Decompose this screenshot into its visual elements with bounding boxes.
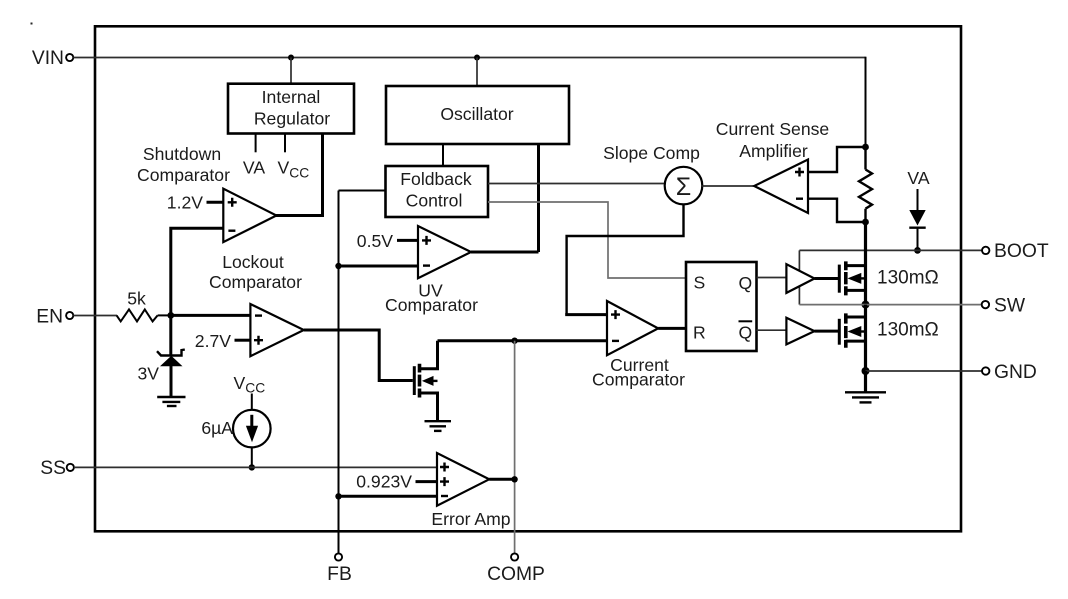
- ground power stage: [845, 371, 886, 402]
- wire FB node to Foldback Control: [339, 190, 386, 192]
- node diode/BOOT junction: [914, 247, 921, 254]
- flip-flop SR latch: [686, 262, 757, 351]
- svg-text:Q: Q: [739, 273, 753, 293]
- node COMP/error-amp-output junction: [511, 476, 517, 482]
- wire VA stub: [255, 134, 257, 153]
- wire 0.5V to + input: [397, 239, 418, 242]
- wire bottom FET to ground node: [864, 305, 867, 371]
- svg-text:Lockout: Lockout: [222, 252, 284, 272]
- svg-text:Oscillator: Oscillator: [440, 104, 513, 124]
- wire EN node to lockout - input: [171, 314, 251, 317]
- summer Slope Comp: [603, 143, 702, 204]
- wire error amp output: [489, 478, 514, 481]
- buffer top gate driver: [786, 264, 814, 293]
- svg-text:0.5V: 0.5V: [357, 231, 393, 251]
- node GND junction: [862, 367, 870, 375]
- wire VIN rail: [95, 57, 866, 59]
- svg-text:5k: 5k: [127, 289, 146, 309]
- wire 0.923V to + input: [416, 480, 438, 483]
- ground zener: [157, 397, 185, 406]
- op-amp Current Comparator: [592, 301, 685, 390]
- wire current comparator output to latch R: [658, 327, 686, 330]
- op-amp Lockout Comparator: [209, 252, 304, 356]
- wire FB node to error amp - input: [339, 495, 438, 498]
- svg-text:6µA: 6µA: [201, 418, 233, 438]
- wire 1.2V to + input: [207, 201, 224, 204]
- block Foldback Control: [386, 166, 489, 217]
- wire Foldback Control to slope comp: [488, 183, 666, 185]
- svg-text:S: S: [694, 273, 706, 293]
- svg-text:130mΩ: 130mΩ: [877, 320, 939, 341]
- wire 5k to EN node: [158, 314, 171, 316]
- svg-text:Current Sense: Current Sense: [716, 119, 829, 139]
- wire VCC stub: [284, 134, 286, 153]
- wire BOOT rail: [799, 249, 961, 251]
- transistor Q pulldown (lockout): [414, 341, 437, 421]
- svg-text:EN: EN: [36, 307, 63, 328]
- op-amp Shutdown Comparator: [137, 144, 276, 242]
- op-amp Error Amp: [431, 453, 510, 529]
- node SS/current-source junction: [249, 464, 255, 470]
- svg-text:GND: GND: [994, 362, 1037, 383]
- current source 6uA: [201, 373, 270, 467]
- block Internal Regulator: [228, 84, 354, 134]
- wire Qbar to bottom driver: [757, 329, 787, 331]
- svg-text:1.2V: 1.2V: [167, 193, 203, 213]
- svg-text:Foldback: Foldback: [400, 169, 472, 189]
- pin EN: [36, 307, 73, 328]
- wire shutdown comparator output to Internal Regulator: [276, 134, 323, 216]
- wire into + input: [565, 313, 607, 316]
- buffer bottom gate driver: [786, 318, 814, 345]
- transistor bottom 130mOhm FET: [839, 313, 865, 347]
- pin FB: [327, 553, 352, 585]
- wire GND rail: [866, 370, 962, 372]
- node VIN/oscillator junction: [474, 55, 480, 61]
- pin COMP: [487, 553, 545, 585]
- svg-text:3V: 3V: [137, 364, 159, 384]
- pin SS: [40, 458, 74, 479]
- wire slope comp to current sense amplifier: [702, 185, 754, 187]
- svg-text:R: R: [693, 323, 706, 343]
- resistor sense 130mOhm network: [859, 147, 872, 222]
- svg-text:Regulator: Regulator: [254, 109, 330, 129]
- svg-text:Slope Comp: Slope Comp: [603, 143, 700, 163]
- svg-text:COMP: COMP: [487, 564, 545, 585]
- svg-text:Shutdown: Shutdown: [143, 144, 221, 164]
- wire COMP node to current comparator - input: [438, 339, 608, 342]
- wire FB node to UV - input: [339, 265, 419, 268]
- IC boundary box: [95, 26, 961, 531]
- pin BOOT: [961, 241, 1049, 262]
- wire 2.7V to + input: [235, 339, 251, 342]
- svg-text:Internal: Internal: [262, 87, 321, 107]
- wire FB net vertical: [338, 191, 340, 554]
- wire slope comp to current comparator + input: [567, 205, 684, 315]
- svg-text:VIN: VIN: [32, 48, 64, 69]
- ground pulldown FET: [425, 421, 452, 431]
- node sense resistor top: [862, 144, 869, 151]
- wire VIN to Internal Regulator: [290, 58, 292, 84]
- node FB/error-amp junction: [335, 493, 341, 499]
- wire COMP net vertical: [514, 341, 516, 554]
- diode zener 3V: [157, 350, 185, 398]
- resistor 5k: [117, 309, 158, 321]
- wire UV comparator output: [471, 251, 539, 254]
- svg-text:Σ: Σ: [676, 173, 691, 201]
- svg-text:Comparator: Comparator: [137, 165, 230, 185]
- wire CSA + input to resistor top: [808, 147, 863, 172]
- wire top driver to gate: [815, 277, 839, 280]
- svg-text:Control: Control: [406, 191, 463, 211]
- svg-text:0.923V: 0.923V: [356, 472, 412, 492]
- pin SW: [961, 296, 1026, 317]
- wire Foldback Control to latch S input: [488, 202, 686, 278]
- svg-text:VA: VA: [907, 168, 929, 188]
- wire VIN to Oscillator: [476, 58, 478, 87]
- wire Oscillator to Foldback Control: [442, 144, 444, 166]
- wire EN node to shutdown - input: [171, 228, 224, 315]
- svg-text:BOOT: BOOT: [994, 241, 1049, 262]
- wire Oscillator to UV comparator output node: [537, 144, 540, 252]
- svg-text:Amplifier: Amplifier: [739, 141, 808, 161]
- svg-text:Comparator: Comparator: [385, 295, 478, 315]
- svg-text:FB: FB: [327, 564, 352, 585]
- stray dot artifact: [31, 23, 33, 25]
- op-amp Current Sense Amplifier: [716, 119, 829, 213]
- pin GND: [961, 362, 1037, 383]
- node COMP/current-comparator junction: [511, 338, 517, 344]
- block Oscillator: [386, 86, 569, 144]
- wire lockout output to pulldown FET gate: [304, 330, 413, 381]
- svg-text:Error Amp: Error Amp: [431, 509, 510, 529]
- svg-text:SS: SS: [40, 458, 66, 479]
- wire bottom driver to gate: [815, 330, 839, 333]
- diode VA bootstrap: [907, 168, 929, 250]
- wire SS to error amp + input: [74, 466, 437, 468]
- wire CSA - input to resistor bottom: [808, 199, 863, 222]
- wire SW rail: [799, 304, 961, 306]
- wire VIN down to sense resistor: [865, 57, 867, 147]
- transistor top 130mOhm FET: [839, 261, 865, 295]
- node sense resistor bottom: [862, 219, 869, 226]
- svg-text:Q: Q: [739, 323, 753, 343]
- wire EN pin lead: [73, 315, 117, 317]
- svg-text:130mΩ: 130mΩ: [877, 268, 939, 289]
- wire driver supply rail BOOT to SW: [798, 250, 800, 304]
- node VIN/internal-regulator junction: [288, 55, 294, 61]
- node SW junction: [862, 301, 870, 309]
- svg-text:VA: VA: [243, 158, 265, 178]
- svg-text:Comparator: Comparator: [592, 370, 685, 390]
- wire Q to top driver: [757, 277, 787, 279]
- op-amp UV Comparator: [385, 226, 478, 315]
- node EN junction: [167, 312, 174, 319]
- node FB/UV junction: [335, 263, 341, 269]
- svg-text:SW: SW: [994, 296, 1026, 317]
- wire VIN pin lead: [73, 57, 95, 59]
- svg-text:2.7V: 2.7V: [195, 331, 231, 351]
- pin VIN: [32, 48, 73, 69]
- wire switch node vertical: [864, 222, 867, 305]
- svg-text:Comparator: Comparator: [209, 272, 302, 292]
- wire EN node to zener: [169, 315, 172, 355]
